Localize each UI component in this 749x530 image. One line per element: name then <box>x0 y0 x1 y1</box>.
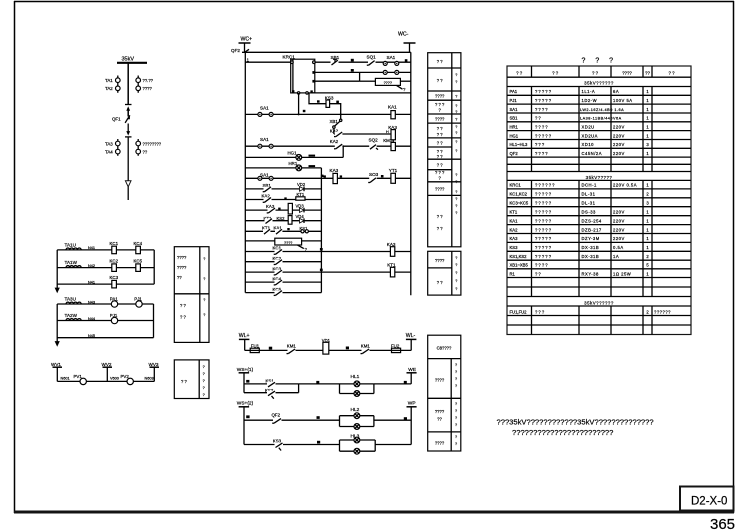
wire: row3 from KRC1 pin3 <box>315 80 360 82</box>
wire: KS1/KS3 parallel branches <box>244 384 299 393</box>
wire: feeder continues down <box>127 137 129 200</box>
wire: lamp block1 to WE <box>374 383 411 385</box>
voltmeter PV2 <box>121 374 134 385</box>
current transformer TA4 <box>105 149 120 154</box>
wire: QF2 lamp row <box>244 419 340 421</box>
svg-text:? ?: ? ? <box>437 214 443 219</box>
svg-text:KC5: KC5 <box>134 259 143 264</box>
flasher device VD1 <box>322 338 331 354</box>
wire: HR1 lamp rung <box>245 167 321 169</box>
svg-text:?: ? <box>455 256 457 260</box>
svg-text:WC+: WC+ <box>241 37 253 43</box>
wire: row TA2W <box>57 320 153 322</box>
svg-text:HR1: HR1 <box>510 124 519 129</box>
svg-text:H: H <box>386 130 389 134</box>
table row R1 <box>510 271 650 276</box>
svg-text:C8????: C8???? <box>437 346 452 351</box>
control switch SA1 contacts row1 <box>383 55 399 66</box>
relay KRC1 (reclosing relay box) <box>283 54 316 94</box>
svg-text:SA1: SA1 <box>387 55 396 60</box>
diode VD3 <box>296 203 305 212</box>
svg-text:?: ? <box>455 271 457 275</box>
svg-text:35kV??????: 35kV?????? <box>584 300 614 305</box>
table row HG1 <box>510 133 650 138</box>
svg-text:TA1W: TA1W <box>65 260 78 265</box>
CT secondary TA1U <box>65 242 82 250</box>
ground arrow group2 <box>55 341 60 347</box>
node WV2 voltage bus terminal <box>102 362 113 382</box>
svg-text:KA2: KA2 <box>510 227 519 232</box>
svg-text:DZY-3M: DZY-3M <box>582 236 600 241</box>
svg-text:??: ?? <box>645 71 650 76</box>
svg-text:?????: ????? <box>535 218 552 223</box>
control switch SA1 contacts on KA1 rung <box>258 106 273 117</box>
svg-text:?: ? <box>455 263 457 267</box>
svg-text:100V 5A: 100V 5A <box>613 98 633 103</box>
relay coil KA1 <box>388 105 397 119</box>
node wire mark before WP <box>404 417 407 420</box>
svg-text:?: ? <box>455 287 457 291</box>
svg-text:DS-33: DS-33 <box>582 210 597 215</box>
svg-text:????: ???? <box>435 378 445 383</box>
svg-text:N45: N45 <box>88 334 95 338</box>
svg-text:?: ? <box>455 80 457 84</box>
svg-text:QF2: QF2 <box>510 151 519 156</box>
svg-text:KA1: KA1 <box>388 105 397 110</box>
relay coil KC1 <box>110 241 119 254</box>
svg-text:? ?: ? ? <box>437 154 443 159</box>
relay coil KA3 on trip rung <box>324 168 343 184</box>
svg-text:LW2-16Z/4.4B0 1.6A: LW2-16Z/4.4B0 1.6A <box>580 108 624 112</box>
table row KRC1 <box>510 183 650 188</box>
wire: left vertical rail <box>244 52 246 292</box>
svg-text:????: ???? <box>435 441 445 446</box>
svg-text:KT1: KT1 <box>510 210 518 215</box>
annotation leader on R1 <box>397 85 407 92</box>
svg-text:????: ???? <box>535 151 549 156</box>
svg-text:VD2: VD2 <box>297 182 306 187</box>
wire: row with device box <box>245 240 321 242</box>
lamp group HL1 <box>340 374 374 397</box>
svg-text:?????: ????? <box>535 201 552 206</box>
svg-text:KC3~KC5: KC3~KC5 <box>510 201 529 206</box>
table row KS1,KS2 <box>510 254 650 259</box>
svg-text:? ?: ? ? <box>668 71 675 76</box>
wire: KS3 lamp row <box>244 444 340 446</box>
svg-text:V600: V600 <box>110 377 119 381</box>
control switch SA1 contacts row2 <box>383 70 399 74</box>
node WS+(2) signal bus terminal <box>237 401 254 445</box>
wire: row KA3 contact <box>245 209 321 211</box>
wire: KC1 trip-start rung <box>245 251 410 253</box>
lamp HR1 red indicator <box>289 161 316 171</box>
svg-text:???: ??? <box>535 309 545 314</box>
time relay coil KT1 <box>387 263 396 277</box>
svg-text:HL1~HL3: HL1~HL3 <box>510 142 528 147</box>
svg-text:?: ? <box>455 190 457 194</box>
circuit breaker QF1 <box>112 105 132 137</box>
contact KA2 <box>262 194 287 203</box>
relay coil KA3 right <box>387 242 396 256</box>
contact KA3 <box>266 204 281 213</box>
svg-text:PV1: PV1 <box>74 374 83 379</box>
svg-text:?????: ????? <box>535 192 552 197</box>
wire: into resistor <box>360 80 376 82</box>
svg-text:??????: ?????? <box>535 183 556 188</box>
current transformer TA2 <box>105 86 120 91</box>
node WV3 voltage bus terminal <box>149 362 160 382</box>
svg-text:?????: ????? <box>535 89 552 94</box>
svg-text:XB1~XB5: XB1~XB5 <box>510 263 529 268</box>
contactor contact KM1 <box>287 344 297 354</box>
svg-text:RXY-38: RXY-38 <box>582 271 599 276</box>
svg-text:?: ? <box>203 313 205 317</box>
svg-text:N601: N601 <box>61 377 70 381</box>
node WS+(1) signal bus terminal <box>237 367 254 393</box>
current transformer TA1 <box>105 76 120 93</box>
wire: HG1 lamp rung <box>245 156 343 158</box>
signal relay KS3 coil <box>325 95 334 107</box>
svg-text:???35kV????????????35kV???????: ???35kV????????????35kV?????????????? <box>497 417 654 426</box>
svg-text:35kV: 35kV <box>122 57 135 63</box>
wire: rung from KRC1 bottom to right rail <box>312 92 411 94</box>
control switch SA1 contacts on trip rung <box>258 172 273 180</box>
svg-text:??????: ?????? <box>654 309 671 314</box>
svg-text:KC4: KC4 <box>134 241 143 246</box>
svg-text:?: ? <box>455 95 457 99</box>
svg-text:HL2: HL2 <box>351 407 360 413</box>
contact KA2 upper branch <box>330 128 391 136</box>
svg-text:KC3: KC3 <box>110 275 119 280</box>
svg-text:? ?: ? ? <box>437 59 443 64</box>
contact KC5 <box>273 287 283 296</box>
svg-text:WV3: WV3 <box>149 362 159 367</box>
current transformer pair right of line with ratio labels <box>136 76 154 93</box>
table row SB1 <box>510 116 650 121</box>
table row KC3~KC5 <box>510 201 650 206</box>
ammeter PA1 <box>110 296 119 307</box>
contact KT1 with KS2 element <box>264 216 286 224</box>
relay coil KC5 <box>134 259 143 272</box>
node wire mark row1 right <box>405 59 408 61</box>
svg-text:WC-: WC- <box>398 32 409 38</box>
relay KT1 element on row <box>296 192 305 200</box>
table row XB1~XB5 <box>510 263 650 268</box>
svg-text:TA2W: TA2W <box>65 313 78 318</box>
trip coil YT1 <box>389 168 398 183</box>
svg-text:?????: ????? <box>535 133 552 138</box>
svg-text:?: ? <box>455 377 457 381</box>
node wire mark mid row1 <box>316 381 319 384</box>
svg-text:??: ?? <box>437 417 442 422</box>
contact KS3 lower branch <box>265 388 276 399</box>
function description column section 2 <box>428 251 461 295</box>
svg-text:TA2: TA2 <box>105 86 113 91</box>
svg-text:SA1: SA1 <box>510 107 519 112</box>
contactor contact KM1 second <box>361 344 371 354</box>
svg-text:LA38-11BB/440V6A: LA38-11BB/440V6A <box>580 117 622 121</box>
contactor coil KM1 <box>383 138 395 150</box>
svg-text:SB1: SB1 <box>510 116 519 121</box>
svg-text:DL-31: DL-31 <box>582 192 596 197</box>
node wire mark mid row3 <box>317 441 320 444</box>
svg-text:N42: N42 <box>88 264 95 268</box>
svg-text:N44: N44 <box>88 317 95 321</box>
node wire mark before WE <box>404 381 407 384</box>
svg-text:XD2UA: XD2UA <box>582 133 598 138</box>
svg-text:????????????????????????: ???????????????????????? <box>512 428 613 437</box>
svg-text:WL+: WL+ <box>239 333 250 339</box>
svg-text:? ?: ? ? <box>437 132 443 137</box>
voltmeter PV1 <box>74 374 87 385</box>
lamp group HL2 <box>340 407 374 429</box>
svg-text:TA1: TA1 <box>105 78 113 83</box>
svg-text:KM1: KM1 <box>287 344 297 349</box>
svg-text:PV2: PV2 <box>121 374 130 379</box>
svg-text:D2-X-0: D2-X-0 <box>691 496 727 508</box>
svg-text:WV2: WV2 <box>102 362 112 367</box>
svg-text:KM1: KM1 <box>361 344 371 349</box>
svg-text:?: ? <box>455 173 457 177</box>
svg-text:????: ???? <box>535 107 549 112</box>
svg-text:?: ? <box>455 363 457 367</box>
svg-text:TA3: TA3 <box>105 141 113 146</box>
svg-text:220V: 220V <box>613 133 625 138</box>
svg-text:? ?: ? ? <box>180 315 186 320</box>
resistor R1 box with label <box>375 78 400 85</box>
svg-text:? ?: ? ? <box>180 303 186 308</box>
table row PA1 <box>510 89 650 94</box>
svg-text:??: ?? <box>143 150 148 155</box>
wire: KRC1 bottom pin drop to KS3 branch <box>309 93 326 104</box>
svg-text:?: ? <box>455 149 457 153</box>
node WP terminal <box>407 400 417 444</box>
svg-text:QF2: QF2 <box>272 412 281 417</box>
wire: rail to KRC1 pin <box>245 61 290 63</box>
svg-text:TA4: TA4 <box>105 150 113 155</box>
svg-text:?: ? <box>455 197 457 201</box>
node wire mark on KC3 rung <box>320 269 323 272</box>
wire: row from KRC1 pin1 to right rail <box>315 61 411 63</box>
pushbutton SB1 on sub-ladder <box>263 183 272 192</box>
svg-text:? ?: ? ? <box>437 162 443 167</box>
svg-text:?: ? <box>203 298 205 302</box>
wire: group2 right vertical <box>153 304 155 338</box>
svg-text:? ?: ? ? <box>437 140 443 145</box>
wire: lamp block2 to WP <box>374 419 411 421</box>
relay coil element crossing rows 3-4 <box>288 203 292 214</box>
node junction dots <box>340 113 342 115</box>
svg-text:1D2-W: 1D2-W <box>582 98 598 103</box>
svg-text:????: ???? <box>435 117 445 122</box>
svg-text:?: ? <box>455 384 457 388</box>
svg-text:220V: 220V <box>613 210 625 215</box>
svg-text:WE: WE <box>408 367 416 373</box>
wire: row KT1 KA1 KS1 <box>245 230 321 232</box>
breaker aux contact QF2 <box>272 412 282 423</box>
svg-text:6A: 6A <box>613 89 619 94</box>
node wire mark row2 left <box>246 415 249 418</box>
svg-text:TA3U: TA3U <box>65 296 76 301</box>
svg-text:??: ?? <box>535 116 542 121</box>
fuse FU1 <box>250 344 259 353</box>
wire: flash bus row <box>245 349 412 351</box>
svg-text:? ? ?: ? ? ? <box>435 102 445 107</box>
wire: row TA1W <box>57 267 154 269</box>
wire: row SB1 manual close <box>245 188 321 190</box>
svg-text:220V: 220V <box>613 227 625 232</box>
table row SA1 <box>510 107 650 112</box>
svg-text:KS2: KS2 <box>277 216 286 221</box>
relay coil element row4 <box>288 216 292 225</box>
wire: row KC2 <box>245 261 321 263</box>
svg-text:DZS-254: DZS-254 <box>582 218 602 223</box>
svg-text:WP: WP <box>408 400 416 406</box>
svg-text:?: ? <box>455 423 457 427</box>
svg-text:?: ? <box>455 402 457 406</box>
svg-text:? ?: ? ? <box>181 379 187 384</box>
svg-text:??: ?? <box>535 271 542 276</box>
svg-text:220V: 220V <box>613 218 625 223</box>
svg-text:?: ? <box>455 110 457 114</box>
svg-text:220V: 220V <box>613 151 625 156</box>
svg-text:N41: N41 <box>88 246 95 250</box>
svg-text:????: ???? <box>435 409 445 414</box>
svg-text:?: ? <box>455 73 457 77</box>
svg-text:R1: R1 <box>510 271 516 276</box>
svg-text:?: ? <box>455 442 457 446</box>
wire: voltmeter row <box>57 380 154 382</box>
wire: sub-ladder right rail <box>320 168 322 293</box>
wire: drop from row2 to row3 <box>359 72 361 81</box>
svg-text:KA1: KA1 <box>510 218 519 223</box>
svg-text:DZB-217: DZB-217 <box>582 227 602 232</box>
contact KC4 <box>273 276 283 285</box>
svg-text:220V: 220V <box>613 142 625 147</box>
contacts KT1 and KA1 with KS1 coil <box>262 226 308 235</box>
svg-text:????: ???? <box>535 124 549 129</box>
wire: right vertical rail <box>410 52 412 295</box>
svg-text:?????: ????? <box>535 254 552 259</box>
svg-text:?: ? <box>455 118 457 122</box>
lamp HG1 green indicator <box>288 150 316 160</box>
svg-text:????: ???? <box>177 255 187 260</box>
node wire mark mid row2 <box>317 416 320 419</box>
contact KC1 <box>273 246 283 255</box>
CT secondary TA3U <box>65 296 82 304</box>
svg-text:?????: ????? <box>535 236 552 241</box>
svg-text:HG1: HG1 <box>510 133 519 138</box>
svg-text:?: ? <box>455 279 457 283</box>
energy meter PJ1 <box>134 296 142 307</box>
svg-text:KA3: KA3 <box>330 168 339 173</box>
svg-text:220V 0.5A: 220V 0.5A <box>613 183 637 188</box>
relay coil KC3 <box>110 275 119 288</box>
wire: resistor to right rail <box>400 80 410 82</box>
svg-text:???: ??? <box>535 142 545 147</box>
contact KC2 <box>273 256 283 265</box>
svg-text:????: ???? <box>622 71 632 76</box>
node wire mark on KC1 rung <box>320 248 323 251</box>
svg-text:?: ? <box>455 104 457 108</box>
svg-text:YT1: YT1 <box>389 168 398 173</box>
table row FU1,FU2 <box>510 309 672 314</box>
svg-text:?: ? <box>455 140 457 144</box>
svg-text:??.??: ??.?? <box>143 78 154 83</box>
svg-text:??: ?? <box>177 275 182 280</box>
svg-text:? ?: ? ? <box>437 126 443 131</box>
node WC+ positive control bus terminal <box>239 37 253 53</box>
relay coil KC2 <box>110 259 119 272</box>
wire: HG1 rung rises to closing rung <box>342 146 344 157</box>
svg-text:?????: ????? <box>535 210 552 215</box>
wire: feeder drop from busbar <box>127 63 129 105</box>
svg-text:PJ1: PJ1 <box>510 98 518 103</box>
wire: KS3 to KA1 rung <box>330 104 341 115</box>
svg-text:?: ? <box>455 211 457 215</box>
svg-text:? ? ?: ? ? ? <box>582 58 618 65</box>
wire: closing rung y=146 <box>245 145 410 147</box>
svg-text:1L1-A: 1L1-A <box>582 89 596 94</box>
svg-text:WS+(2): WS+(2) <box>237 401 254 407</box>
svg-text:????: ???? <box>177 265 187 270</box>
svg-text:?: ? <box>203 277 205 281</box>
svg-text:SA1: SA1 <box>260 106 269 111</box>
svg-text:? ?: ? ? <box>437 78 443 83</box>
svg-text:DX-31B: DX-31B <box>582 245 600 250</box>
contact KS3 row3 <box>273 438 283 450</box>
fuse FU2 <box>391 344 401 353</box>
node WC- negative control bus terminal <box>398 32 416 53</box>
svg-text:HG1: HG1 <box>288 150 298 155</box>
node wire mark after FU1 <box>269 347 272 350</box>
node wire mark after VD1 <box>346 347 349 350</box>
wire: top positive rail <box>242 51 411 53</box>
svg-text:N41: N41 <box>88 280 95 284</box>
diode VD4 <box>296 214 305 223</box>
svg-text:?: ? <box>203 386 205 390</box>
svg-text:?: ? <box>203 372 205 376</box>
table row KA3 <box>510 236 650 241</box>
wire: row TA1U <box>57 249 154 251</box>
title block box D2-X-0 <box>680 487 734 511</box>
svg-text:DCH-1: DCH-1 <box>582 183 597 188</box>
node wire mark on row1 <box>351 59 354 62</box>
svg-text:KC2: KC2 <box>110 259 119 264</box>
table row KC1,KC2 <box>510 192 650 197</box>
limit switch contact SQ3 <box>368 172 383 182</box>
table row KA2 <box>510 227 650 232</box>
table row PJ1 <box>510 98 650 103</box>
svg-text:?: ? <box>455 204 457 208</box>
svg-text:TA1U: TA1U <box>65 242 76 247</box>
svg-text:? ?: ? ? <box>437 280 443 285</box>
wire: group2 neutral row <box>57 337 153 339</box>
svg-text:1A: 1A <box>613 254 619 259</box>
wire: KRC1 bottom pin drop to KA1 rung <box>298 93 300 115</box>
current transformer pair right with ratio labels <box>136 139 162 156</box>
svg-text:? ? ?: ? ? ? <box>435 170 445 175</box>
wire: protection CT group left vertical <box>56 250 58 289</box>
lamp group HL3 <box>340 434 376 454</box>
svg-text:?: ? <box>203 393 205 397</box>
wire: trip rung y=178.3 <box>245 177 410 179</box>
svg-text:XD2U: XD2U <box>582 124 595 129</box>
svg-text:220V: 220V <box>613 236 625 241</box>
relay coil KC4 <box>134 241 143 254</box>
wire: KC3 rung to KT1 coil <box>245 271 410 273</box>
table header row <box>516 71 675 76</box>
